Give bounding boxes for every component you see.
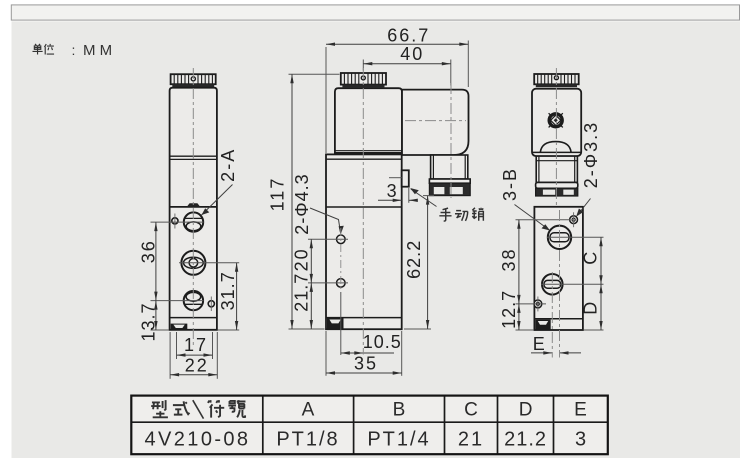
port A bottom (left view)	[184, 291, 203, 310]
cap center hole (middle view)	[361, 76, 365, 80]
svg-text:3: 3	[575, 428, 586, 450]
dimension 66.7 line	[326, 43, 468, 45]
dimension 36 / 13.7 line	[155, 222, 157, 330]
svg-text:A: A	[302, 400, 315, 421]
screw hole left (left view)	[172, 218, 178, 224]
cable gland flange (middle view)	[429, 179, 470, 183]
dimension 40 extension lines	[362, 60, 364, 71]
svg-text:B: B	[393, 400, 406, 421]
top light bar	[11, 5, 739, 20]
housing bottom line (right view)	[532, 151, 581, 153]
svg-text:40: 40	[400, 44, 424, 64]
port B top (right view)	[548, 226, 571, 249]
port P middle (left view)	[181, 251, 205, 275]
port B bottom (right view)	[542, 274, 563, 295]
DIN connector box (middle view)	[402, 90, 469, 155]
svg-text:2-A: 2-A	[218, 148, 238, 182]
dome arch (right view)	[540, 142, 571, 153]
screw hole bottom-left (right view)	[534, 300, 542, 308]
mounting foot (right view)	[535, 320, 550, 330]
table header 型式符號	[151, 400, 245, 418]
dimension 17 line	[177, 354, 213, 356]
extension line at middle port center	[179, 262, 239, 264]
pin top extension line	[389, 177, 402, 179]
screw hole right (left view)	[208, 301, 214, 307]
mounting foot (middle view)	[327, 318, 344, 329]
dimension 31.7 line	[236, 263, 238, 330]
dimension 10.5 line	[341, 352, 394, 354]
centerline (left view)	[192, 68, 194, 347]
extension line at top port center	[151, 221, 204, 223]
svg-text:20: 20	[292, 247, 312, 271]
bottom divider (left view)	[170, 317, 217, 319]
adapter plate line (middle view)	[326, 158, 402, 160]
port A top (left view)	[184, 212, 203, 231]
svg-text:38: 38	[499, 247, 519, 271]
dimension 3 line	[378, 199, 402, 201]
svg-text:D: D	[581, 302, 601, 315]
manual pin (middle view)	[402, 170, 409, 186]
svg-text:66.7: 66.7	[387, 25, 430, 45]
coil cap knurl (right view)	[534, 74, 579, 84]
leader 2-Phi4.3	[310, 208, 341, 233]
vertical tick through left screw hole	[174, 214, 176, 229]
10.5 extension vertical (middle view)	[340, 292, 342, 355]
centerline port1 (right view)	[559, 210, 561, 358]
svg-text:13.7: 13.7	[139, 302, 159, 341]
mounting foot (left view)	[171, 324, 188, 330]
connector horizontal centerline (middle view)	[405, 120, 466, 122]
centerline coil (middle view)	[362, 68, 364, 355]
coil body (middle view)	[335, 88, 402, 153]
vertical tick through right screw hole	[210, 297, 212, 312]
dimension 38 / 12.7 extension lines	[516, 219, 571, 221]
gland flange (right view)	[536, 182, 578, 188]
dimension C / D extension lines	[547, 236, 604, 238]
table header divider	[131, 421, 608, 423]
valve outline (left view)	[170, 88, 217, 330]
dimension 20 / 21.7 line	[310, 239, 312, 329]
bottom divider (right view)	[534, 318, 583, 320]
extension line at body bottom left	[151, 329, 170, 331]
coil bottom line (middle view)	[335, 150, 402, 152]
coil cap knurl (left view)	[171, 74, 216, 84]
mounting hole 2 (middle view)	[337, 279, 346, 288]
dimension 40 line	[363, 63, 451, 65]
dimension 35 extension lines	[325, 331, 327, 376]
svg-text:PT1/8: PT1/8	[276, 428, 339, 450]
svg-text:117: 117	[267, 177, 287, 212]
dimension 117 line	[291, 74, 293, 329]
gland ribbed nut (right view)	[536, 188, 578, 196]
DIN connector housing (right view)	[532, 89, 581, 156]
cap lip band (left view)	[172, 84, 214, 87]
svg-text:10.5: 10.5	[363, 332, 402, 352]
coil bottom double line (left view)	[170, 155, 217, 157]
label 手动销	[439, 208, 483, 221]
dimension 22 line	[170, 374, 217, 376]
svg-text:3: 3	[387, 181, 397, 201]
table outer border	[131, 396, 608, 455]
centerline connector (middle view)	[450, 83, 452, 198]
bottom divider (middle view)	[326, 317, 402, 319]
dimension 62.2 extension lines	[423, 195, 434, 197]
cap knurl ribs (left view)	[174, 74, 212, 84]
svg-text:12.7: 12.7	[499, 290, 519, 329]
leader 2-Phi3.3	[578, 199, 591, 216]
extension line at bottom port center	[151, 300, 204, 302]
svg-text:M M: M M	[83, 42, 112, 59]
cap center hole (right view)	[554, 76, 558, 80]
coil cap knurl (middle view)	[341, 73, 386, 85]
dimension 17 extension lines	[176, 332, 178, 359]
cable gland ribbed nut (middle view)	[429, 183, 470, 195]
dimension 38 / 12.7 line	[518, 220, 520, 330]
svg-text:D: D	[519, 400, 533, 421]
hole centerline vertical (middle view)	[340, 228, 342, 292]
table inner vertical lines	[263, 396, 554, 455]
svg-text:E: E	[574, 400, 587, 421]
dimension 22 extension lines	[169, 332, 171, 379]
body top divider (middle view)	[326, 206, 402, 208]
leader 3-B	[515, 205, 549, 230]
svg-text:17: 17	[184, 335, 208, 355]
dimension E line	[531, 352, 552, 354]
dimension 62.2 line	[427, 196, 429, 329]
stack mid section (right view)	[536, 156, 577, 182]
svg-text:E: E	[533, 334, 545, 354]
housing screw (right view)	[549, 114, 562, 127]
centerline upper (right view)	[555, 68, 557, 206]
svg-text:62.2: 62.2	[404, 240, 424, 279]
leader manual pin	[411, 189, 437, 207]
svg-text:21: 21	[458, 428, 484, 450]
mounting hole 1 (middle view)	[337, 235, 346, 244]
dimension 117 extension lines	[289, 73, 340, 75]
svg-text:PT1/4: PT1/4	[367, 428, 430, 450]
dimension 66.7 extension lines	[325, 47, 327, 153]
cap center hole (left view)	[191, 77, 195, 81]
svg-text:22: 22	[185, 355, 209, 375]
svg-text:C: C	[464, 400, 478, 421]
svg-text:36: 36	[139, 239, 159, 263]
svg-text::: :	[72, 42, 76, 58]
svg-text:3-B: 3-B	[500, 167, 520, 201]
svg-text:2-Φ3.3: 2-Φ3.3	[581, 121, 601, 188]
table cells background	[131, 396, 608, 455]
extension line at body bottom right	[218, 329, 240, 331]
unit note: 单位	[32, 44, 54, 55]
body top divider (left view)	[170, 206, 217, 208]
valve body (middle view)	[326, 154, 402, 329]
cap lip band (right view)	[536, 84, 577, 87]
svg-text:2-Φ4.3: 2-Φ4.3	[292, 173, 312, 234]
svg-text:35: 35	[354, 354, 378, 374]
dimension 35 line	[326, 372, 402, 374]
valve body (right view)	[534, 207, 583, 330]
screw hole top-right (right view)	[570, 216, 578, 224]
svg-text:C: C	[581, 252, 601, 265]
cap lip band (middle view)	[342, 85, 384, 88]
centerline port2 (right view)	[551, 272, 553, 358]
small trapezoid button above divider (left view)	[187, 203, 200, 206]
svg-text:21.7: 21.7	[292, 273, 312, 312]
dimension 3 extension line	[408, 188, 410, 203]
svg-text:21.2: 21.2	[504, 428, 547, 450]
svg-text:4V210-08: 4V210-08	[145, 428, 251, 450]
dimension C / D line	[600, 237, 602, 330]
connector neck (middle view)	[431, 155, 468, 179]
leader 2-A	[202, 185, 233, 216]
svg-text:31.7: 31.7	[218, 271, 238, 310]
dimension 20 / 21.7 extension lines	[308, 238, 348, 240]
